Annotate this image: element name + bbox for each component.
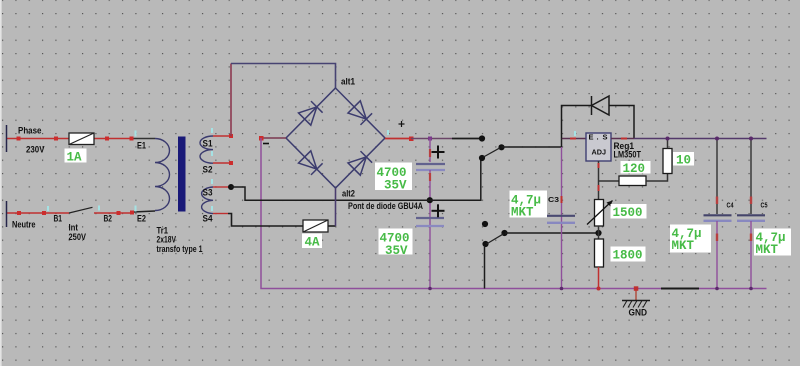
svg-text:E1: E1 <box>137 141 146 151</box>
svg-text:.: . <box>597 133 599 142</box>
svg-text:Int: Int <box>69 223 79 233</box>
svg-text:S3: S3 <box>203 188 213 198</box>
svg-text:35V: 35V <box>385 244 408 258</box>
svg-text:alt1: alt1 <box>341 77 355 87</box>
svg-text:E: E <box>589 133 594 142</box>
svg-text:MKT: MKT <box>511 206 534 220</box>
svg-text:B2: B2 <box>104 214 113 224</box>
svg-text:4A: 4A <box>305 236 321 250</box>
svg-text:230V: 230V <box>26 145 45 155</box>
svg-text:C4: C4 <box>727 201 735 210</box>
svg-text:2x18V: 2x18V <box>157 235 177 245</box>
svg-text:Phase: Phase <box>18 126 42 136</box>
svg-text:Neutre: Neutre <box>12 220 36 230</box>
svg-text:S2: S2 <box>203 165 213 175</box>
svg-text:C5: C5 <box>761 201 768 210</box>
svg-text:ADJ: ADJ <box>592 148 607 157</box>
svg-text:alt2: alt2 <box>342 189 355 199</box>
svg-text:1500: 1500 <box>613 206 643 220</box>
svg-text:E2: E2 <box>137 214 146 224</box>
svg-text:1A: 1A <box>67 151 83 165</box>
svg-text:transfo type 1: transfo type 1 <box>157 244 203 254</box>
svg-text:B1: B1 <box>54 214 63 224</box>
svg-text:35V: 35V <box>384 179 407 193</box>
svg-text:S4: S4 <box>203 214 213 224</box>
svg-text:1800: 1800 <box>613 249 643 263</box>
svg-text:120: 120 <box>623 162 646 176</box>
svg-text:Pont de diode GBU4A: Pont de diode GBU4A <box>348 201 423 211</box>
svg-text:GND: GND <box>629 308 648 318</box>
svg-text:C3: C3 <box>548 195 559 204</box>
svg-text:LM350T: LM350T <box>614 150 642 160</box>
svg-text:10: 10 <box>676 154 691 168</box>
svg-text:MKT: MKT <box>672 239 695 253</box>
svg-text:MKT: MKT <box>756 243 779 257</box>
svg-text:250V: 250V <box>69 232 87 242</box>
svg-text:S: S <box>603 133 608 142</box>
svg-text:S1: S1 <box>203 139 213 149</box>
